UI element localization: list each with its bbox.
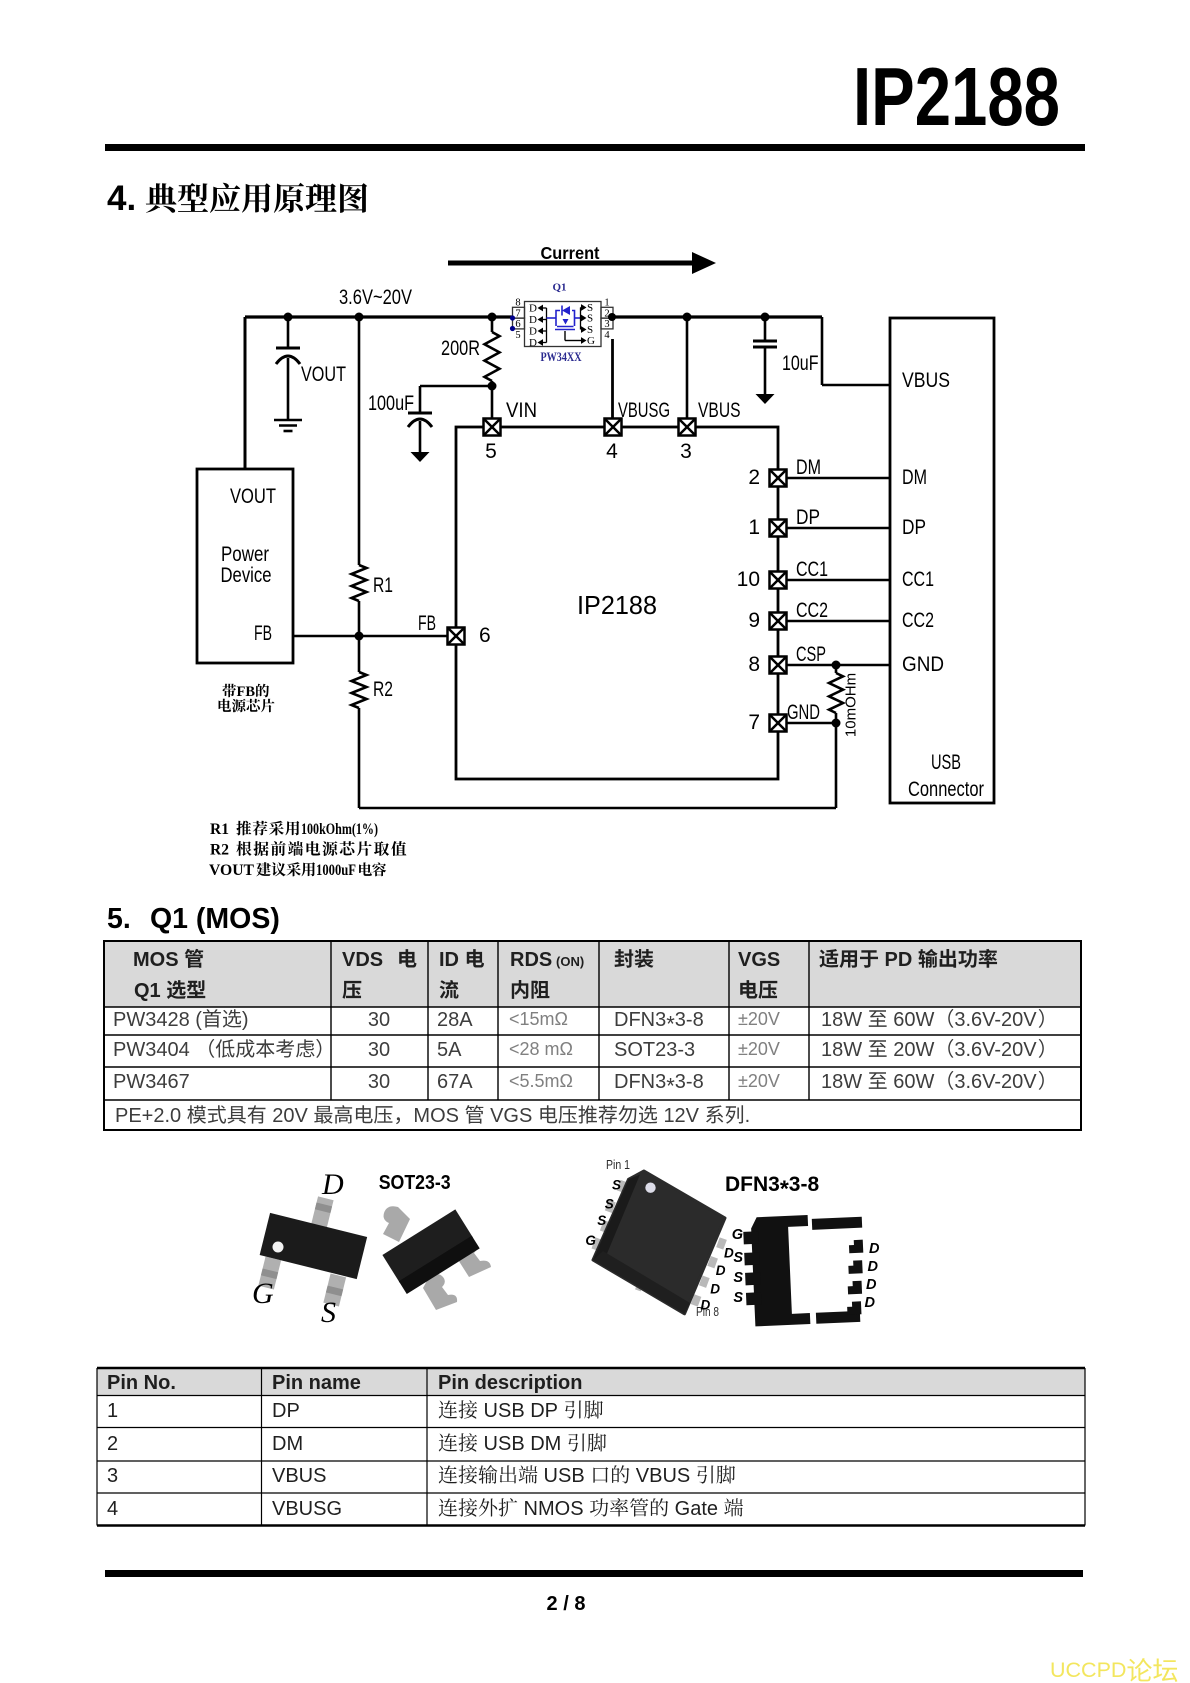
svg-text:10: 10 xyxy=(737,568,760,591)
svg-text:NMOS: NMOS xyxy=(524,1498,584,1520)
svg-text:3: 3 xyxy=(604,319,609,330)
svg-text:7: 7 xyxy=(748,711,760,734)
svg-text:S: S xyxy=(321,1296,336,1329)
svg-text:VOUT: VOUT xyxy=(301,363,346,386)
svg-text:D: D xyxy=(529,314,537,326)
svg-text:*: * xyxy=(780,1176,789,1202)
svg-text:18W: 18W xyxy=(821,1071,862,1093)
svg-text:3.6V-20V: 3.6V-20V xyxy=(954,1071,1037,1093)
svg-text:PE+2.0: PE+2.0 xyxy=(115,1105,181,1127)
svg-text:VBUSG: VBUSG xyxy=(618,399,670,422)
svg-text:8: 8 xyxy=(515,298,520,309)
svg-text:G: G xyxy=(732,1227,743,1243)
svg-text:GND: GND xyxy=(787,701,820,724)
svg-text:<28 mΩ: <28 mΩ xyxy=(509,1039,573,1059)
svg-text:UCCPD: UCCPD xyxy=(1050,1658,1126,1682)
svg-text:200R: 200R xyxy=(441,337,480,360)
svg-text:9: 9 xyxy=(748,609,760,632)
svg-text:GND: GND xyxy=(902,653,944,676)
svg-text:CC1: CC1 xyxy=(796,558,828,581)
svg-text:DP: DP xyxy=(272,1400,300,1422)
svg-text:G: G xyxy=(587,335,595,347)
svg-text:S: S xyxy=(597,1213,606,1228)
svg-text:30: 30 xyxy=(368,1039,390,1061)
svg-text:7: 7 xyxy=(515,308,520,319)
svg-text:60W: 60W xyxy=(893,1071,934,1093)
svg-text:3: 3 xyxy=(680,440,692,463)
svg-text:<5.5mΩ: <5.5mΩ xyxy=(509,1071,573,1091)
svg-text:FB: FB xyxy=(254,622,272,645)
svg-text:R2: R2 xyxy=(373,678,393,701)
svg-text:3.6V-20V: 3.6V-20V xyxy=(954,1009,1037,1031)
svg-text:18W: 18W xyxy=(821,1009,862,1031)
svg-text:Connector: Connector xyxy=(908,778,984,801)
svg-text:2: 2 xyxy=(748,466,760,489)
svg-text:100uF: 100uF xyxy=(368,392,414,415)
svg-text:5A: 5A xyxy=(437,1039,462,1061)
svg-text:S: S xyxy=(587,313,593,325)
svg-text:60W: 60W xyxy=(893,1009,934,1031)
svg-text:1: 1 xyxy=(604,298,609,309)
svg-text:1: 1 xyxy=(748,516,760,539)
svg-text:CSP: CSP xyxy=(796,643,826,666)
svg-text:DP: DP xyxy=(796,506,820,529)
svg-text:VBUS: VBUS xyxy=(272,1465,326,1487)
svg-text:VBUS: VBUS xyxy=(698,399,741,422)
svg-text:DFN3: DFN3 xyxy=(725,1173,780,1196)
svg-text:VGS: VGS xyxy=(490,1105,532,1127)
svg-text:VDS: VDS xyxy=(342,949,383,971)
svg-text:SOT23-3: SOT23-3 xyxy=(379,1172,451,1194)
svg-text:5: 5 xyxy=(485,440,497,463)
svg-text:G: G xyxy=(585,1233,596,1248)
svg-text:6: 6 xyxy=(479,624,491,647)
svg-text:Pin 1: Pin 1 xyxy=(606,1158,630,1172)
svg-text:S: S xyxy=(733,1250,743,1266)
svg-text:DM: DM xyxy=(902,466,927,489)
svg-text:±20V: ±20V xyxy=(738,1009,780,1029)
svg-text:D: D xyxy=(710,1282,720,1297)
svg-text:IP2188: IP2188 xyxy=(577,590,657,620)
svg-text:±20V: ±20V xyxy=(738,1039,780,1059)
svg-text:2 / 8: 2 / 8 xyxy=(547,1593,586,1615)
svg-text:Pin name: Pin name xyxy=(272,1372,361,1394)
svg-text:3.6V-20V: 3.6V-20V xyxy=(954,1039,1037,1061)
svg-text:USB DP: USB DP xyxy=(484,1400,558,1422)
svg-text:2: 2 xyxy=(107,1433,118,1455)
svg-text:Pin No.: Pin No. xyxy=(107,1372,176,1394)
svg-text:DM: DM xyxy=(272,1433,303,1455)
svg-text:D: D xyxy=(869,1241,880,1257)
svg-text:D: D xyxy=(716,1263,726,1278)
svg-text:FB: FB xyxy=(237,684,256,700)
svg-text:3-8: 3-8 xyxy=(789,1173,820,1196)
svg-text:PD: PD xyxy=(885,949,913,971)
svg-text:28A: 28A xyxy=(437,1009,473,1031)
svg-text:4.: 4. xyxy=(107,179,136,218)
svg-text:PW34XX: PW34XX xyxy=(541,350,582,364)
svg-text:D: D xyxy=(321,1168,344,1201)
svg-text:D: D xyxy=(529,337,537,349)
svg-text:5: 5 xyxy=(515,330,520,341)
svg-text:USB DM: USB DM xyxy=(484,1433,562,1455)
svg-text:20V: 20V xyxy=(272,1105,308,1127)
svg-text:DP: DP xyxy=(902,516,926,539)
svg-text:1000uF: 1000uF xyxy=(316,862,356,879)
svg-text:5.: 5. xyxy=(107,903,131,935)
svg-text:D: D xyxy=(529,303,537,315)
svg-text:USB: USB xyxy=(544,1465,585,1487)
svg-text:1: 1 xyxy=(107,1400,118,1422)
svg-text:±20V: ±20V xyxy=(738,1071,780,1091)
svg-text:CC1: CC1 xyxy=(902,568,934,591)
svg-text:4: 4 xyxy=(606,440,618,463)
svg-text:Pin description: Pin description xyxy=(438,1372,582,1394)
svg-text:30: 30 xyxy=(368,1071,390,1093)
svg-text:18W: 18W xyxy=(821,1039,862,1061)
svg-text:100kOhm(1%): 100kOhm(1%) xyxy=(301,821,378,838)
svg-text:12V: 12V xyxy=(663,1105,699,1127)
svg-text:PW3467: PW3467 xyxy=(113,1071,190,1093)
svg-text:8: 8 xyxy=(748,653,760,676)
svg-text:G: G xyxy=(252,1277,274,1310)
svg-text:30: 30 xyxy=(368,1009,390,1031)
svg-text:ID: ID xyxy=(439,949,459,971)
svg-text:PW3428 (: PW3428 ( xyxy=(113,1009,202,1031)
svg-text:R1: R1 xyxy=(373,574,393,597)
svg-text:3-8: 3-8 xyxy=(675,1071,704,1093)
svg-text:): ) xyxy=(242,1009,249,1031)
svg-text:3.6V~20V: 3.6V~20V xyxy=(339,286,412,309)
svg-text:10uF: 10uF xyxy=(782,352,819,375)
svg-text:VIN: VIN xyxy=(506,399,537,422)
svg-text:R2: R2 xyxy=(210,842,229,859)
svg-text:IP2188: IP2188 xyxy=(853,50,1060,143)
svg-text:10mOHm: 10mOHm xyxy=(843,673,860,737)
svg-text:4: 4 xyxy=(604,330,610,341)
svg-text:S: S xyxy=(612,1178,621,1193)
svg-text:VBUSG: VBUSG xyxy=(272,1498,342,1520)
svg-text:VGS: VGS xyxy=(738,949,780,971)
svg-text:Current: Current xyxy=(541,243,600,263)
svg-text:SOT23-3: SOT23-3 xyxy=(614,1039,695,1061)
svg-text:3-8: 3-8 xyxy=(675,1009,704,1031)
svg-text:S: S xyxy=(605,1196,614,1211)
svg-text:MOS: MOS xyxy=(133,949,179,971)
svg-text:D: D xyxy=(865,1295,876,1311)
svg-text:S: S xyxy=(733,1290,743,1306)
svg-text:(ON): (ON) xyxy=(556,954,584,969)
svg-text:USB: USB xyxy=(931,751,961,774)
svg-text:Q1: Q1 xyxy=(134,980,161,1002)
svg-text:DM: DM xyxy=(796,456,821,479)
svg-text:DFN3: DFN3 xyxy=(614,1009,666,1031)
svg-text:3: 3 xyxy=(107,1465,118,1487)
svg-text:VBUS: VBUS xyxy=(636,1465,690,1487)
svg-text:6: 6 xyxy=(515,319,520,330)
svg-text:Power: Power xyxy=(221,543,269,566)
svg-text:20W: 20W xyxy=(893,1039,934,1061)
svg-text:D: D xyxy=(701,1298,711,1313)
svg-text:D: D xyxy=(529,326,537,338)
svg-text:VOUT: VOUT xyxy=(230,485,276,508)
svg-text:Q1 (MOS): Q1 (MOS) xyxy=(150,903,280,935)
svg-text:S: S xyxy=(733,1270,743,1286)
svg-text:CC2: CC2 xyxy=(902,609,934,632)
svg-text:RDS: RDS xyxy=(510,949,552,971)
svg-text:Device: Device xyxy=(221,564,272,587)
svg-text:DFN3: DFN3 xyxy=(614,1071,666,1093)
svg-text:CC2: CC2 xyxy=(796,599,828,622)
svg-text:4: 4 xyxy=(107,1498,118,1520)
svg-text:67A: 67A xyxy=(437,1071,473,1093)
svg-text:MOS: MOS xyxy=(413,1105,459,1127)
svg-text:FB: FB xyxy=(418,612,436,635)
svg-text:D: D xyxy=(868,1259,879,1275)
svg-text:<15mΩ: <15mΩ xyxy=(509,1009,568,1029)
svg-text:R1: R1 xyxy=(210,821,229,838)
svg-text:.: . xyxy=(745,1105,751,1127)
svg-text:VOUT: VOUT xyxy=(209,862,255,879)
svg-text:D: D xyxy=(866,1277,877,1293)
svg-text:PW3404: PW3404 xyxy=(113,1039,190,1061)
svg-text:Gate: Gate xyxy=(675,1498,718,1520)
svg-text:Q1: Q1 xyxy=(552,282,566,294)
svg-text:VBUS: VBUS xyxy=(902,369,950,392)
